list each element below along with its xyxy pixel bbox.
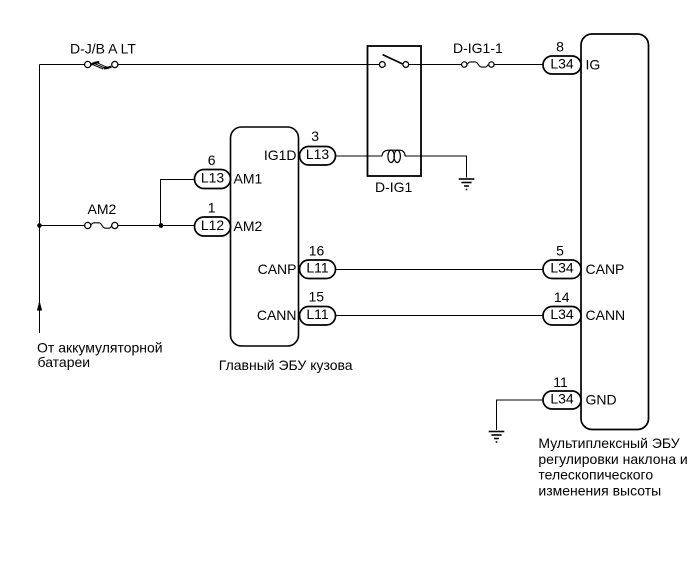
caption: multiplex tilt/telescopic ECU [538, 435, 687, 498]
svg-text:L34: L34 [550, 390, 574, 406]
svg-text:IG1D: IG1D [264, 147, 297, 163]
connector D-IG1-1 [462, 62, 495, 67]
svg-text:Главный ЭБУ кузова: Главный ЭБУ кузова [219, 357, 353, 373]
wire: left vertical battery feed [39, 65, 41, 334]
relay D-IG1 box [368, 46, 422, 176]
svg-text:D-IG1: D-IG1 [375, 179, 413, 195]
svg-text:AM2: AM2 [88, 201, 117, 217]
svg-text:изменения высоты: изменения высоты [538, 482, 661, 498]
wire: relay switch output to D-IG1-1 connector [409, 64, 462, 66]
svg-text:AM1: AM1 [234, 170, 263, 186]
svg-text:L34: L34 [550, 55, 574, 71]
pin 8 L34 IG [543, 39, 600, 74]
svg-text:CANP: CANP [586, 261, 625, 277]
svg-text:L11: L11 [306, 260, 329, 276]
svg-text:L34: L34 [550, 306, 574, 322]
fuse AM2 [85, 222, 118, 228]
wire: GND pin to chassis ground [497, 400, 544, 430]
svg-text:GND: GND [586, 391, 617, 407]
svg-text:1: 1 [208, 200, 216, 216]
svg-text:15: 15 [309, 288, 325, 304]
pin 6 L13 AM1 [195, 152, 263, 188]
wire: CANP between ECUs [336, 269, 543, 271]
svg-text:L12: L12 [201, 217, 225, 233]
junction: battery riser / AM2 wire [37, 223, 42, 228]
pin 11 L34 GND [543, 374, 617, 409]
svg-text:CANP: CANP [258, 261, 297, 277]
pin 1 L12 AM2 [195, 200, 263, 236]
svg-text:L13: L13 [201, 169, 225, 185]
svg-text:14: 14 [554, 289, 570, 305]
svg-text:D-IG1-1: D-IG1-1 [453, 40, 503, 56]
pin 3 L13 IG1D [264, 128, 336, 165]
svg-text:AM2: AM2 [234, 218, 263, 234]
main body ECU box [231, 127, 299, 346]
svg-text:батареи: батареи [38, 354, 91, 370]
junction: AM2 wire / AM1 riser [159, 223, 164, 228]
wire: CANN between ECUs [336, 315, 543, 317]
svg-text:L13: L13 [306, 146, 330, 162]
svg-text:IG: IG [586, 56, 601, 72]
fusible link D-J/B A LT [85, 61, 118, 69]
label: from battery [37, 340, 163, 371]
wire: riser from AM2 wire up to AM1 pin [161, 180, 195, 226]
wire: AM2 row horizontal [40, 225, 195, 227]
svg-text:CANN: CANN [257, 307, 297, 323]
svg-text:CANN: CANN [586, 307, 626, 323]
svg-text:L11: L11 [306, 306, 329, 322]
relay switch contacts [379, 55, 408, 68]
svg-text:8: 8 [556, 39, 564, 55]
svg-text:16: 16 [309, 243, 325, 259]
multiplex tilt ECU box [581, 34, 649, 430]
pin 5 L34 CANP [543, 242, 624, 278]
wire: D-IG1-1 connector to pin 8 oval [494, 64, 543, 66]
svg-text:D-J/B A LT: D-J/B A LT [70, 41, 136, 57]
wire: IG1D pin to relay coil and to ground [336, 156, 467, 178]
svg-text:L34: L34 [550, 260, 574, 276]
svg-text:Мультиплексный ЭБУ: Мультиплексный ЭБУ [538, 435, 679, 451]
svg-text:телескопического: телескопического [538, 467, 653, 483]
svg-text:регулировки наклона и: регулировки наклона и [538, 451, 687, 467]
ground: relay coil ground [459, 179, 475, 190]
pin 14 L34 CANN [543, 289, 625, 325]
svg-text:3: 3 [311, 128, 319, 144]
pin 16 L11 CANP [258, 243, 336, 279]
svg-text:11: 11 [553, 374, 568, 390]
svg-text:6: 6 [208, 152, 216, 168]
svg-text:5: 5 [556, 242, 564, 258]
arrow: from battery (pointing up) [37, 301, 42, 311]
pin 15 L11 CANN [257, 288, 336, 325]
relay coil [382, 150, 405, 162]
ground: multiplex ECU ground [489, 432, 505, 443]
wire: top horizontal from battery riser to relay [40, 64, 380, 66]
